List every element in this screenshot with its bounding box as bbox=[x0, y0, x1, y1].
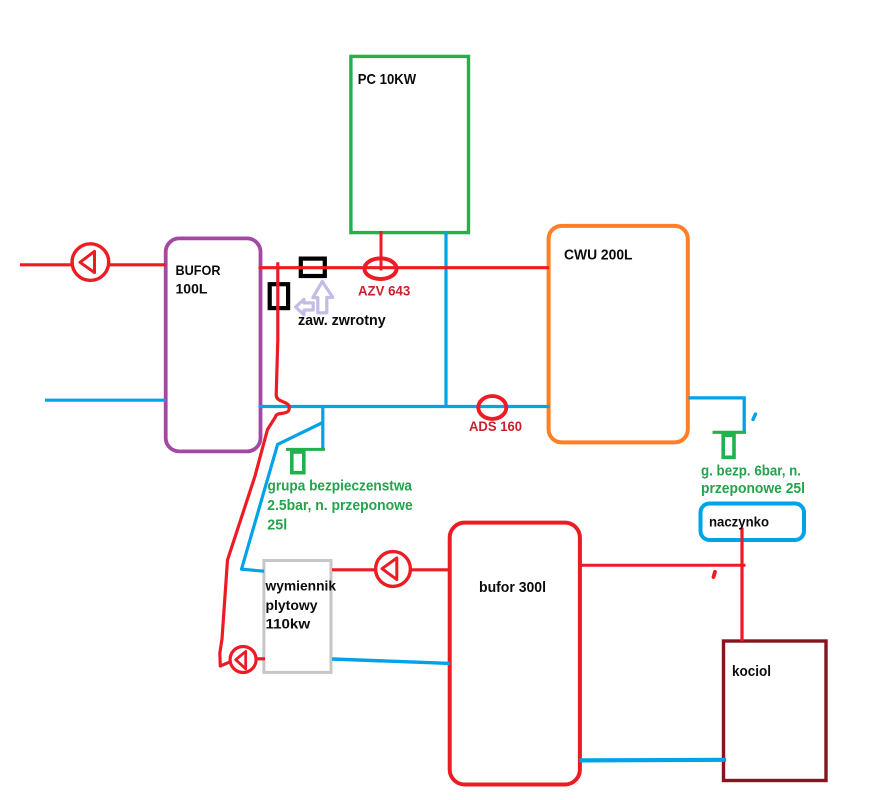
svg-text:plytowy: plytowy bbox=[266, 597, 318, 613]
svg-text:25l: 25l bbox=[267, 518, 287, 534]
svg-text:AZV 643: AZV 643 bbox=[358, 283, 411, 298]
svg-text:110kw: 110kw bbox=[266, 616, 311, 632]
svg-text:2.5bar, n. przeponowe: 2.5bar, n. przeponowe bbox=[267, 498, 412, 514]
svg-text:zaw. zwrotny: zaw. zwrotny bbox=[298, 312, 386, 329]
svg-text:ADS 160: ADS 160 bbox=[469, 419, 522, 434]
svg-text:bufor 300l: bufor 300l bbox=[479, 580, 546, 596]
svg-text:PC 10KW: PC 10KW bbox=[358, 71, 417, 88]
svg-text:100L: 100L bbox=[176, 281, 208, 297]
svg-text:wymiennik: wymiennik bbox=[265, 578, 337, 594]
svg-text:g. bezp. 6bar, n.: g. bezp. 6bar, n. bbox=[701, 464, 801, 480]
svg-text:kociol: kociol bbox=[732, 663, 771, 680]
svg-text:przeponowe 25l: przeponowe 25l bbox=[701, 481, 805, 497]
svg-text:BUFOR: BUFOR bbox=[176, 262, 221, 278]
svg-text:grupa bezpieczenstwa: grupa bezpieczenstwa bbox=[268, 479, 413, 495]
svg-text:naczynko: naczynko bbox=[709, 514, 769, 530]
svg-text:CWU 200L: CWU 200L bbox=[564, 248, 633, 264]
